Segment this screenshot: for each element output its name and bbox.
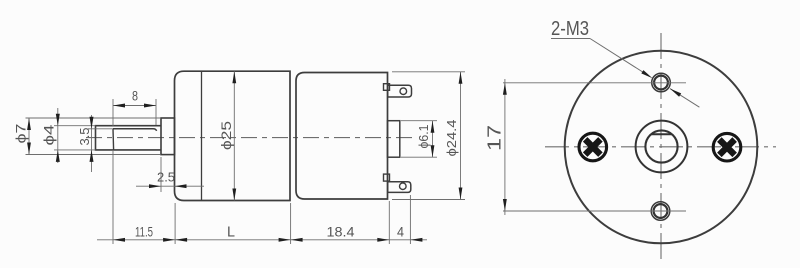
svg-text:8: 8 <box>132 89 138 104</box>
screw S1 ring <box>579 133 607 161</box>
output shaft <box>96 126 162 150</box>
dimension φ24.4 (motor) <box>392 72 465 200</box>
svg-text:ϕ6.1: ϕ6.1 <box>417 124 431 148</box>
bottom hole centerline / 17 extension <box>503 210 686 212</box>
centerline: front view vertical <box>660 33 662 259</box>
top hole centerline / 17 extension <box>503 82 686 84</box>
mounting hole M3 bottom <box>651 202 670 221</box>
dimension 8 (flat length) <box>113 89 156 127</box>
center boss circle <box>636 121 688 173</box>
terminal T1 tab <box>384 84 390 91</box>
gearbox cover seam <box>201 71 203 200</box>
motor body <box>296 73 388 200</box>
leader 2-M3 <box>551 39 699 108</box>
svg-text:17: 17 <box>485 125 505 151</box>
mounting hole M3 top <box>652 73 671 92</box>
svg-text:L: L <box>227 225 235 241</box>
shaft flat leading edge <box>112 129 115 150</box>
svg-text:ϕ24.4: ϕ24.4 <box>445 119 459 156</box>
terminal T1 hole <box>400 88 407 95</box>
svg-text:18.4: 18.4 <box>327 224 355 240</box>
svg-text:2-M3: 2-M3 <box>551 18 589 40</box>
motor rear boss (φ6.1) <box>388 121 400 158</box>
dimension 17 (hole spacing) <box>485 79 507 215</box>
shaft flat (D-cut) <box>113 129 157 131</box>
output shaft hole (D-cut) <box>645 130 677 162</box>
svg-text:ϕ4: ϕ4 <box>42 124 57 146</box>
terminal T2 hole <box>400 183 407 190</box>
terminal T1 plate <box>388 85 412 97</box>
dimension 3.5 (flat height) <box>78 115 113 172</box>
terminal T2 tab <box>384 174 390 181</box>
svg-text:ϕ25: ϕ25 <box>219 121 234 150</box>
screw S1 phillips cross <box>578 132 609 163</box>
front face circle (φ24.4 face) <box>565 51 758 244</box>
terminal T2 plate <box>388 182 411 193</box>
dimension φ4 (shaft) <box>42 108 96 163</box>
dimension φ25 (gearbox) <box>219 71 236 200</box>
screw S2 ring <box>713 133 741 161</box>
dimension φ7 (bushing) <box>14 118 161 155</box>
svg-text:2.5: 2.5 <box>157 171 175 185</box>
svg-text:3.5: 3.5 <box>78 127 92 145</box>
shaft D-flat chord <box>651 133 671 135</box>
gearbox housing <box>175 71 291 200</box>
dimension φ6.1 (rear boss) <box>401 121 437 158</box>
bottom dimension chain <box>97 150 427 244</box>
svg-text:ϕ7: ϕ7 <box>14 124 29 144</box>
bushing (φ7 collar) <box>161 118 175 155</box>
svg-text:4: 4 <box>397 224 404 240</box>
centerline: front view horizontal <box>545 146 776 148</box>
svg-text:11.5: 11.5 <box>135 225 153 240</box>
dimension 2.5 (bushing length) <box>136 157 204 192</box>
screw S2 phillips cross <box>712 132 743 163</box>
centerline: side view axis <box>86 137 414 139</box>
